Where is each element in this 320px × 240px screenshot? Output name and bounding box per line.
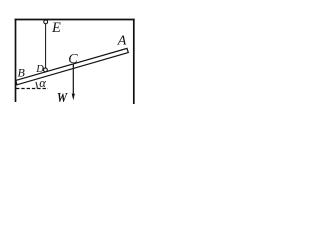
svg-text:W: W bbox=[57, 90, 69, 105]
angle arc bbox=[36, 82, 37, 88]
svg-text:D: D bbox=[35, 64, 44, 75]
background bbox=[0, 0, 149, 112]
svg-text:B: B bbox=[18, 66, 26, 80]
svg-text:α: α bbox=[39, 76, 46, 90]
ring at D bbox=[44, 68, 48, 72]
hook ring at E bbox=[44, 20, 48, 24]
weight arrow W bbox=[72, 64, 74, 95]
svg-text:A: A bbox=[117, 34, 127, 49]
dashed reference line bbox=[16, 88, 48, 90]
svg-text:E: E bbox=[51, 20, 61, 36]
rod AB bbox=[16, 48, 129, 84]
ceiling (top border line) bbox=[15, 19, 135, 21]
string wire from E to D bbox=[45, 22, 47, 70]
left wall bbox=[15, 19, 17, 102]
right wall bbox=[133, 19, 135, 104]
